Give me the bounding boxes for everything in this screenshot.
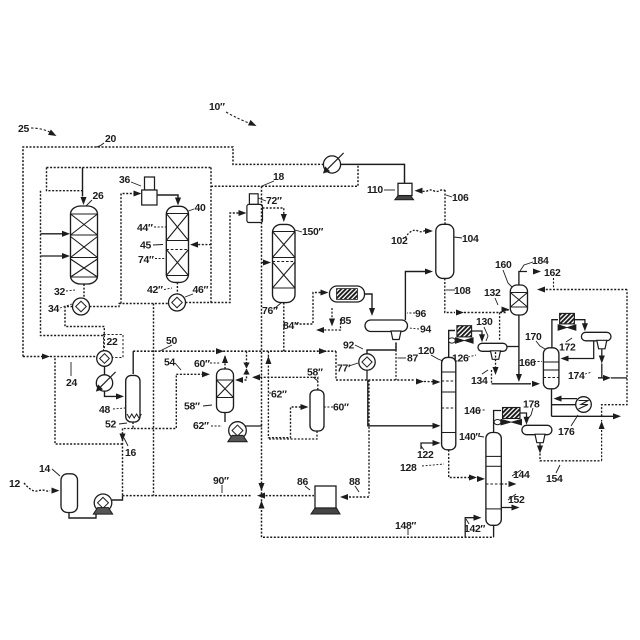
wire dashed into column 120 upper feed [424,381,438,383]
arrowhead into separator 48 [116,393,124,399]
reactor 40 packing sections [166,214,188,276]
leader 184 [520,262,533,271]
svg-text:62″: 62″ [193,421,209,432]
reflux drum 172 [581,332,611,349]
arrowhead reflux into column 170 [561,355,569,361]
arrowhead into reactor 40 top [175,198,181,206]
wire quench arrow 2 into reactor 26 [41,255,68,257]
svg-text:92: 92 [343,341,354,352]
heater 36 lower box [142,190,157,205]
wire treater 72 outlet to column 150 [263,208,284,216]
wire line 50 main header [133,350,336,352]
arrowhead 144 [509,481,517,487]
treater 72 upper box [249,194,258,205]
wire purge riser from pump header down to line 90 [153,304,155,496]
svg-text:58″: 58″ [184,402,200,413]
svg-text:178: 178 [523,400,540,411]
wire line 50 branch down into separator 48 top [132,351,134,374]
svg-text:45: 45 [140,241,151,252]
leader 176 [571,415,578,426]
compressor 110 body [398,183,412,195]
heat exchanger on line 24 [96,372,116,392]
wire vessel 160 overhead [519,272,527,286]
leader 172 [566,338,572,342]
separator vessel 104 [436,224,454,278]
wire heater 36 outlet to reactor 40 top [157,195,178,204]
arrowhead 58 overhead left [252,374,260,380]
column 140 trays [486,456,501,509]
pump 22 [97,351,113,367]
wire pump 34 discharge header [90,304,169,307]
arrowhead line 106 into compressor [415,188,423,194]
wire line 108/132 towards vessel 160 [464,312,506,314]
svg-text:52: 52 [105,420,116,431]
arrowhead on line 50 right [319,348,327,354]
svg-text:86: 86 [297,477,308,488]
wire line 87 vertical [395,343,397,381]
wire feed line 12 (wavy) [24,483,50,491]
arrowhead 142 into column [474,515,482,521]
leader 132 [495,298,498,305]
wire line 106 from vessel 104 top [444,191,446,225]
wire little jog into 160 [500,310,509,313]
arrowhead on line 50 left [216,348,224,354]
leader 148 [407,529,409,535]
reboiler 176 [576,397,592,413]
wire drum 172 boot down [601,349,603,360]
wire feed into reactor 26 top [82,168,84,197]
wire line 142 reboil return [465,518,476,538]
wire cooler 146 to drum 178 [520,413,527,422]
leader 146 [479,409,486,411]
wire pump 22 to exchanger [104,367,106,376]
reflux drum 126 [478,343,507,359]
wire reboiler return to column 170 [556,398,577,400]
arrowhead line 62 up into line 50 [265,356,271,364]
valve on line into vessel 58 [243,363,249,375]
arrowhead down into junction [258,483,264,491]
svg-text:128: 128 [400,463,417,474]
wire pump 34 spillback to pump 22 [65,307,104,350]
wire line 88 drop to furnace header [368,380,370,496]
leader 152 [508,494,516,500]
svg-text:140″: 140″ [459,432,480,443]
wire reflux drum 172 to column 170 [563,341,594,359]
svg-text:44″: 44″ [137,223,153,234]
wire 174 to right edge [611,377,627,379]
wire line 20 recycle (left/top boundary) [23,147,324,357]
wire line 16 vertical [122,429,124,496]
wire line 102 feed (wavy) [405,230,429,238]
svg-text:162: 162 [544,268,561,279]
arrowhead into vessel 60 [301,404,309,410]
wire line 106 into compressor 110 (wavy) [422,190,446,192]
svg-text:142″: 142″ [464,524,485,535]
wire 32 reactor 26 bottoms to pump 34 [83,284,85,298]
svg-text:90″: 90″ [213,476,229,487]
feed pump below vessel 14 [93,494,112,514]
wire feed header into column 170 [492,383,532,385]
leader 174 [585,372,592,374]
svg-text:24: 24 [66,378,77,389]
column vessel 120 [442,357,456,449]
wire furnace 86 outlet to junction [266,495,315,497]
wire into line 84 elbow [319,319,341,330]
column vessel 140/152 [486,433,501,526]
arrowhead 154 joins product line [599,421,605,429]
wire line 24 into pump 22 [50,356,97,358]
furnace 86 body [315,486,336,508]
wire vessel 60 bottoms loop [268,431,317,439]
svg-text:154: 154 [546,474,563,485]
arrowhead into vessel 58 right [235,377,243,383]
svg-text:132: 132 [484,288,501,299]
feed surge vessel 14 [61,474,78,513]
arrowhead into line 84 [316,327,324,333]
leader 86 [305,486,310,490]
svg-text:32: 32 [54,287,65,298]
column 120 trays [442,372,456,433]
svg-text:54: 54 [164,358,175,369]
svg-text:20: 20 [105,134,116,145]
arrowhead line 54 into vessel 58 [202,371,210,377]
wire line 148 bottom header [262,496,494,538]
arrowhead into column 150 side [263,259,271,265]
wire drum 126 vapor to 160 bottoms line [507,346,519,348]
wire return line up to line 24 [55,357,123,445]
separator vessel 48 [126,375,140,422]
wire feed pump discharge to line 16 [112,496,123,500]
wire line 58 vessel 60 overhead [254,377,318,390]
svg-text:26: 26 [93,191,104,202]
svg-text:96: 96 [415,309,426,320]
wire line 76 column 150 bottoms to line 50 [283,303,285,352]
wire quench branch line down left of reactor 26 [41,191,105,336]
wire recycle 154/162 path up right edge [601,420,603,461]
svg-text:60″: 60″ [194,359,210,370]
arrowhead into vessel 160 left [502,306,510,312]
wire inner left drop to reactor 26 feed [47,168,83,191]
arrowhead line 84 into exchanger [321,289,329,295]
stripper vessel 60 [310,390,324,431]
compressor 110 base [395,196,414,200]
arrowhead feed into reactor 26 top [80,197,86,205]
wire line 62 loop vessel 60 feed [268,351,305,438]
svg-text:152: 152 [508,495,525,506]
svg-text:46″: 46″ [193,285,209,296]
wire pump 77 liquid feed to column 120 [368,380,436,426]
svg-text:172: 172 [559,343,576,354]
arrowhead line 77 dashed [416,378,424,384]
arrowhead into column 120 upper feed [433,379,441,385]
leader 166 [534,361,542,363]
svg-text:174: 174 [568,371,585,382]
arrowhead 174 product right [603,375,611,381]
arrowhead reboiler return [554,396,562,402]
wire line 24 from recycle to pump 22 [23,356,44,358]
wire line 154 to right [540,454,602,461]
wire line 50 drop to pump 77 header [335,351,337,380]
column vessel 150 [273,224,296,302]
arrowhead line 96 into vessel 104 [425,268,433,274]
pump 34 [73,298,90,315]
wire line 77 header to column 120 [336,379,415,381]
svg-text:14: 14 [39,464,50,475]
svg-text:146: 146 [464,406,481,417]
air cooler 130 [449,326,474,344]
wire cooler outlet to compressor 110 [341,164,405,183]
vessel 160 packing [510,293,527,308]
wire column 140 overhead to air cooler 146 [494,411,501,433]
svg-text:58″: 58″ [307,368,323,379]
arrowhead quench 2 [62,253,70,259]
air cooler 146 [494,408,521,426]
leader 154 [556,465,560,473]
wire line 96 drum 94 vapor to vessel 104 [405,272,428,321]
arrowhead quench 1 [62,231,70,237]
cooler on line 20 [323,153,344,174]
leader 170 [536,341,545,349]
arrowhead into drum 94 [369,308,375,316]
wire pump 62 discharge jog [245,424,262,426]
separator drum 94 [365,320,408,340]
svg-text:62″: 62″ [271,390,287,401]
svg-text:110: 110 [367,185,383,196]
wire line 122 stripping stub [421,443,436,449]
wire recycle return into vessel 160 [540,289,627,291]
arrowhead bottoms product right [613,413,621,419]
arrowhead left into junction [257,493,265,499]
wire 52 bottoms over to riser of line 54 [133,374,176,428]
arrowhead 152 [512,504,520,510]
svg-text:184: 184 [532,256,549,267]
wire column 140 bottoms down [493,525,495,537]
svg-text:25: 25 [18,124,29,135]
polish reactor vessel 160 [510,285,527,315]
column 150 packing sections [273,232,296,289]
leader 144 [512,470,521,476]
wire jog 52-line to line 16 node [123,428,134,430]
svg-text:134: 134 [471,376,488,387]
wire line 90 left segment [123,495,156,497]
wire column 120 overhead to air cooler 130 [449,331,455,358]
leader 142 [466,519,469,524]
wire bottoms product line [552,415,617,417]
svg-text:148″: 148″ [395,521,416,532]
wire branch feed into column 150 side [262,262,269,264]
reactor vessel 26 [71,206,98,284]
wire to reboiler 176 [552,404,577,406]
svg-text:72″: 72″ [266,196,282,207]
leader 120 [431,355,443,361]
wire line 84 riser into exchanger [296,293,324,325]
wire line 134 from drum 126 boot [495,352,497,371]
arrowhead on line 24 [42,353,50,359]
arrowhead line 134 down [492,367,498,375]
svg-text:12: 12 [9,479,20,490]
wire drum 178 boot down [539,443,541,450]
svg-text:34: 34 [48,304,59,315]
svg-text:77′: 77′ [337,364,351,375]
arrowhead 88 into furnace [340,494,348,500]
svg-text:108: 108 [454,286,471,297]
wire line 132 down to drum 126 [499,313,501,342]
arrowhead 58 overhead up [222,355,228,363]
svg-text:170: 170 [525,332,542,343]
svg-text:42″: 42″ [147,285,163,296]
arrowhead of 25 leader [48,130,58,139]
svg-text:10″: 10″ [209,102,225,113]
arrowhead into column 150 top [281,214,287,222]
heater 36 upper box [145,177,155,190]
treater 72 lower box [247,204,263,222]
leader 130 [484,327,488,341]
reflux drum 178 [522,425,552,442]
wire quench arrow 1 into reactor 26 [41,233,68,235]
reactor 26 packing sections [71,214,98,277]
shell-and-tube exchanger [330,286,365,302]
leader 134 [482,370,488,374]
wire 42 reactor 40 bottoms to pump 46 [176,282,178,293]
wire exchanger outlet to separator 48 [105,391,119,396]
wire line 18 header [211,164,358,186]
pump 62 [228,422,247,442]
wire cooler to drum 172 [574,320,585,328]
leader 160 [503,270,512,287]
wire vessel 14 bottoms to feed pump [69,512,96,518]
leader for 20 [96,143,104,147]
arrowhead down on line 16 [119,434,125,442]
svg-text:122: 122 [417,450,434,461]
wire drum 94 boot to pump 77 [367,343,396,354]
arrowhead on line 108 [456,309,464,315]
wire pump 46 discharge riser to treater 72 [186,213,245,303]
svg-text:74″: 74″ [138,255,154,266]
wire stub below label 162 [553,278,555,289]
wire side draw 144 [501,483,512,485]
arrowhead 184 to 162 [533,268,541,274]
arrowhead line 102 into vessel 104 [425,228,433,234]
separator 48 internals hatched bottom [127,414,141,418]
wire side draw 152 [501,507,514,509]
arrowhead into drum 178 [523,417,529,425]
wire line 54 into vessel 58 [176,373,205,375]
arrowhead 172 boot down [599,356,605,364]
dashed enclosure box 22 [104,335,124,358]
svg-text:150″: 150″ [302,227,323,238]
svg-text:16: 16 [125,448,136,459]
svg-text:106: 106 [452,193,469,204]
svg-text:40: 40 [195,203,206,214]
wire line 45 side feed into reactor 40 [194,244,211,246]
leader arrow for 10 [226,112,252,124]
arrowhead line 12 into vessel 14 [52,488,60,494]
wire line 90 mid segment [155,495,252,497]
wire line 174 product [598,377,608,379]
wire line 134 corner [491,370,493,384]
pump 77 [359,354,375,370]
arrowhead line 45 into reactor 40 [190,242,198,248]
arrowhead up into junction [258,501,264,509]
arrowhead on line 128 [469,474,477,480]
wire riser pump 34 to heater 36 [121,194,139,304]
arrowhead into drum 172 [582,323,588,331]
arrowhead into treater 72 [239,210,247,216]
wire cooler 130 to drum 126 [472,331,482,339]
svg-text:160: 160 [495,260,512,271]
svg-text:22: 22 [107,337,118,348]
svg-text:104: 104 [462,234,479,245]
arrowhead 122 into column 120 [433,440,441,446]
reactor vessel 40 [166,206,188,282]
wire line 85 stub [331,308,333,323]
wire inner right branch down (45 feed header) [210,168,212,304]
wire line from 50 through valve into vessel 58 [237,351,247,380]
stripper 58 packing [217,380,234,398]
arrowhead into heater 36 [134,190,142,196]
arrowhead feed into column 170 [532,381,540,387]
svg-text:60″: 60″ [333,403,349,414]
arrowhead 178 boot down [537,446,543,454]
svg-text:87: 87 [407,354,418,365]
air cooler overhead 170 [558,313,576,330]
svg-text:48: 48 [99,405,110,416]
wire long vertical from line 18 down to junction 90 [261,186,263,495]
leader 140 [478,436,484,437]
arrowhead of 10 leader [248,120,258,129]
stripper vessel 58 [217,369,234,413]
pump 46 [169,294,186,311]
wire line 128 column 120 bottoms [449,450,471,478]
wire inner header line from line 20 [47,167,212,169]
svg-text:176: 176 [558,427,575,438]
furnace 86 base [311,508,340,514]
leader arrow for 25 [31,128,53,134]
wire 128 cont [477,478,482,479]
arrowhead 160 bottoms down [516,374,522,382]
leader 178 [527,408,533,420]
svg-text:18: 18 [273,172,284,183]
column vessel 170 [543,348,559,389]
column 170 trays [543,362,559,378]
svg-text:84″: 84″ [283,321,299,332]
wire pump 77 outlet down [366,370,368,380]
svg-text:130: 130 [476,317,493,328]
wire recycle to vessel 160 [602,290,627,417]
wire vessel 160 bottoms down [518,315,520,379]
svg-text:85: 85 [340,316,351,327]
arrowhead 128 into column 140 [477,476,485,482]
wire column 170 bottoms down [551,389,553,417]
arrowhead feed into column 120 mid [433,423,441,429]
arrowhead recycle into 160 right [537,286,545,292]
wire vessel 58 bottoms to pump 62 [224,413,226,423]
arrowhead into drum 126 [479,334,485,342]
wire vessel 58 overhead to line 50 [224,356,226,369]
wire line 88 into furnace [344,496,369,498]
wire 174 elbow [598,364,602,378]
svg-text:166: 166 [519,358,536,369]
leader 88 [355,486,359,492]
wire line 108 vessel 104 bottoms [445,278,455,312]
leader 90 [221,485,223,493]
svg-text:144: 144 [513,470,530,481]
wire exchanger outlet to drum 94 [365,294,373,310]
svg-text:94: 94 [420,325,431,336]
arrowhead line 85 down [329,319,335,327]
svg-text:36: 36 [119,175,130,186]
arrowhead leader 22 [102,351,109,358]
